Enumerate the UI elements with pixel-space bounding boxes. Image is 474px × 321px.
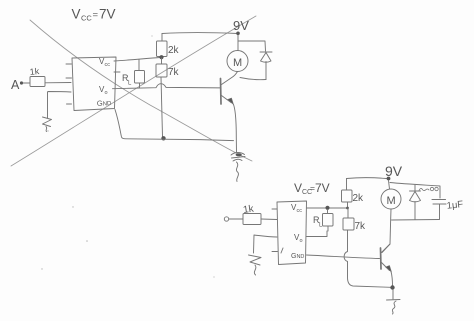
node A (input terminal)	[11, 78, 23, 92]
node emitter junction (circuit 2)	[390, 285, 394, 289]
wire U1 GND to emitter node (bottom rail, circuit 1)	[115, 110, 234, 141]
svg-text:cc: cc	[105, 62, 111, 68]
wire Vo to Q1 base (hop over R3 wire)	[113, 84, 221, 89]
pin label Vo (U1)	[99, 85, 108, 96]
transistor Q1	[221, 72, 238, 153]
wire R1 to U1 input	[45, 82, 71, 84]
wire R3 bottom to ground rail	[161, 77, 163, 137]
wire U2 GND pin to Q2 base	[307, 255, 380, 259]
cross-out line 2	[11, 16, 256, 166]
svg-text:7V: 7V	[315, 181, 330, 195]
wire diode bottom to collector node	[240, 78, 266, 80]
wire U1 second input to ground	[48, 92, 72, 119]
cross-out line 1	[30, 20, 252, 161]
wire Vo pin to RL bottom	[307, 231, 328, 237]
wire A to R1	[23, 82, 30, 84]
label Vcc = 7V (circuit 1)	[72, 7, 116, 23]
svg-text:2k: 2k	[168, 45, 180, 56]
label scribble (motor note)	[419, 188, 429, 190]
resistor R3 7k	[156, 58, 180, 78]
wire 9V node to motor	[389, 181, 390, 190]
svg-text:V: V	[294, 181, 302, 195]
resistor R4 1k	[242, 203, 261, 224]
svg-text:o: o	[105, 90, 108, 96]
wire R4 to U2 input	[261, 218, 277, 221]
paper specks	[41, 35, 214, 277]
wire R6 bottom to ground rail (hop over base wire)	[344, 230, 390, 287]
diode D1	[260, 52, 272, 80]
comparator U1	[66, 57, 116, 111]
node divider junction (circuit 1)	[159, 55, 163, 59]
pin label GND (U1)	[97, 98, 113, 108]
svg-text:7k: 7k	[168, 67, 180, 78]
capacitor C1 1uF	[432, 200, 446, 220]
node RL junction (circuit 2)	[325, 206, 329, 210]
svg-text:1k: 1k	[29, 66, 40, 77]
svg-text:cc: cc	[297, 208, 303, 214]
svg-text:o: o	[300, 238, 303, 244]
node 9V supply (circuit 1)	[236, 32, 240, 36]
wire input to R4	[229, 218, 243, 220]
wire diode branch top (circuit 1)	[238, 41, 266, 51]
node input terminal (circuit 2)	[224, 217, 228, 221]
node ground rail junction (circuit 1)	[161, 136, 165, 140]
motor M1	[227, 51, 248, 72]
node 9V supply (circuit 2)	[387, 177, 391, 181]
resistor R5 2k	[342, 179, 365, 209]
comparator U2	[272, 201, 307, 265]
node divider junction (circuit 2)	[346, 207, 349, 210]
svg-text:9V: 9V	[385, 163, 403, 179]
svg-text:M: M	[233, 57, 242, 69]
svg-text:7V: 7V	[99, 7, 116, 22]
svg-text:GND: GND	[291, 253, 304, 260]
svg-text:=: =	[93, 10, 99, 21]
pin label Vcc (U2)	[291, 203, 302, 214]
ground (Q2 emitter, circuit 2)	[387, 300, 401, 315]
wire 9V rail (circuit 2)	[347, 177, 387, 180]
pin label Vo (U2)	[294, 233, 303, 244]
wire 9V node to snubber branch	[390, 183, 440, 199]
diode D2	[410, 185, 421, 220]
svg-text:V: V	[72, 7, 81, 22]
transistor Q2	[381, 244, 393, 286]
svg-text:7k: 7k	[355, 221, 367, 232]
label Vcc = 7V (circuit 2)	[294, 181, 330, 196]
svg-text:2k: 2k	[353, 193, 365, 204]
resistor R6 7k	[343, 208, 366, 232]
ground (Q1 emitter, circuit 1)	[231, 153, 245, 182]
wire U1 Vcc pin to divider junction	[114, 58, 160, 62]
label scribble loops	[430, 187, 438, 190]
wire motor bottom to collector	[382, 209, 391, 253]
wire U2 second input to ground	[254, 235, 278, 253]
svg-text:9V: 9V	[233, 18, 249, 33]
motor M2	[381, 189, 401, 209]
wire 9V top rail (circuit 1)	[162, 32, 238, 35]
wire snubber bottom rail	[392, 219, 440, 222]
wire 9V node to motor	[237, 35, 239, 51]
ground (U1 input, circuit 1)	[43, 117, 52, 132]
wire emitter node to ground	[392, 290, 394, 300]
resistor RL pull-up (circuit 2)	[313, 210, 333, 232]
resistor RL pull-up (circuit 1)	[122, 60, 145, 89]
svg-text:CC: CC	[81, 14, 92, 23]
resistor R2 2k	[157, 34, 180, 57]
resistor R1 1k	[29, 66, 45, 87]
svg-text:M: M	[387, 195, 396, 207]
svg-text:1μF: 1μF	[446, 199, 464, 212]
wire U2 Vcc pin to divider junction	[307, 207, 348, 209]
pin stub U1 right	[114, 71, 120, 73]
svg-text:A: A	[11, 78, 20, 92]
pin label Vcc (U1)	[99, 57, 110, 68]
ground (U2 input, circuit 2)	[249, 255, 262, 275]
